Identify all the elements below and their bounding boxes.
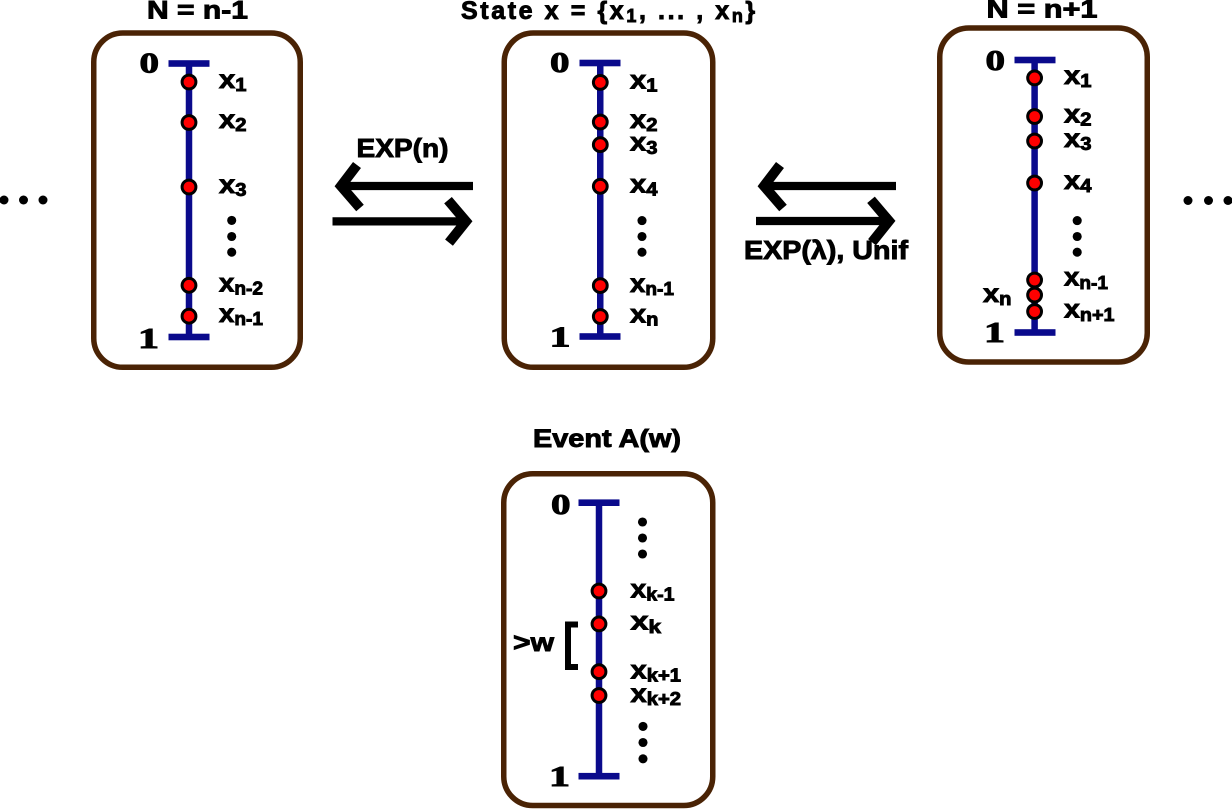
- box N=n+1: [940, 28, 1148, 362]
- svg-text:State x = {x1, ... , xn}: State x = {x1, ... , xn}: [461, 0, 758, 26]
- vertical ellipsis top of bottom box: [638, 517, 647, 558]
- state line right box: [1015, 57, 1056, 336]
- dot x2 left box: [182, 116, 196, 130]
- svg-text:1: 1: [984, 318, 1005, 349]
- arrow left-bottom (pointing right): [333, 200, 467, 242]
- dot x4 middle box: [593, 179, 607, 193]
- dot x4 right box: [1028, 176, 1042, 190]
- dot xk-1 bottom box: [592, 584, 606, 598]
- svg-text:N = n-1: N = n-1: [147, 0, 248, 25]
- svg-text:0: 0: [551, 490, 571, 521]
- svg-text:EXP(n): EXP(n): [357, 133, 449, 163]
- dot x2 right box: [1028, 110, 1042, 124]
- dot xn-1 middle box: [593, 279, 607, 293]
- dot xk+1 bottom box: [592, 665, 606, 679]
- dot xn-1 left box: [182, 309, 196, 323]
- svg-text:N = n+1: N = n+1: [987, 0, 1098, 24]
- vertical ellipsis bottom of bottom box: [638, 722, 647, 763]
- vertical ellipsis middle box: [637, 216, 646, 257]
- dot xk bottom box: [592, 617, 606, 631]
- right ellipsis: [1184, 196, 1232, 205]
- vertical ellipsis left box: [227, 216, 236, 257]
- dot xn-1 right box: [1028, 273, 1042, 287]
- dot xn right box: [1028, 288, 1042, 302]
- arrow left-top (pointing left): [341, 165, 473, 208]
- dot x1 middle box: [593, 76, 607, 90]
- vertical ellipsis right box: [1073, 216, 1082, 257]
- state line bottom box: [579, 499, 620, 779]
- svg-text:0: 0: [986, 46, 1006, 77]
- dot x1 right box: [1028, 71, 1042, 85]
- dot x2 middle box: [593, 115, 607, 129]
- dot x3 left box: [182, 180, 196, 194]
- svg-text:0: 0: [140, 49, 160, 80]
- svg-text:Event A(w): Event A(w): [533, 425, 681, 453]
- svg-text:EXP(λ), Unif: EXP(λ), Unif: [744, 235, 908, 265]
- box Event A(w): [504, 474, 713, 806]
- arrow right-bottom (pointing right): [756, 200, 889, 242]
- state line middle box: [580, 60, 621, 340]
- arrow right-top (pointing left): [764, 165, 896, 208]
- svg-text:1: 1: [138, 324, 159, 355]
- dot x1 left box: [182, 75, 196, 89]
- box State x: [504, 33, 713, 367]
- dot xk+2 bottom box: [592, 689, 606, 703]
- dot x3 middle box: [593, 138, 607, 152]
- bracket for w: [568, 625, 578, 668]
- svg-text:1: 1: [549, 762, 570, 793]
- dot xn-2 left box: [182, 278, 196, 292]
- dot xn+1 right box: [1028, 305, 1042, 319]
- left ellipsis: [0, 196, 48, 205]
- svg-text:>w: >w: [513, 627, 555, 657]
- state line left box: [169, 60, 210, 340]
- svg-text:1: 1: [550, 323, 571, 354]
- svg-text:0: 0: [550, 48, 570, 79]
- dot xn middle box: [593, 310, 607, 324]
- dot x3 right box: [1028, 134, 1042, 148]
- box N=n-1: [94, 33, 301, 367]
